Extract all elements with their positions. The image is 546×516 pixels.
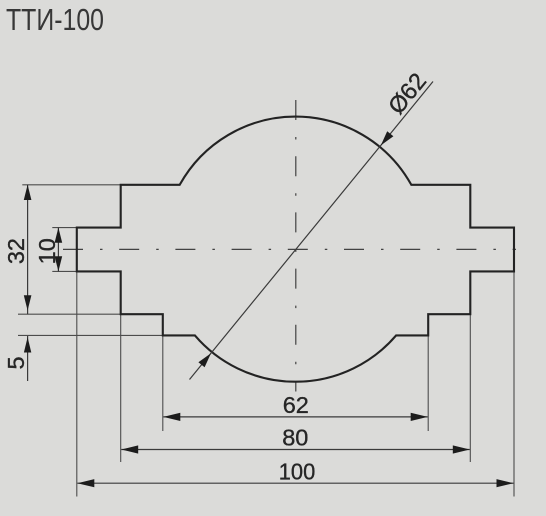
extension line 5 upper (y=314) [18,313,121,315]
extension line 100 right [513,271,515,496]
horizontal centerline [63,248,516,250]
extension line 10 upper [52,227,77,229]
diameter leader line [190,82,434,380]
dimension line 32 [27,185,29,314]
extension line 80 left [120,314,122,462]
svg-text:100: 100 [279,459,316,485]
extension line 62 right [427,335,429,431]
arrow 100 left [77,479,94,487]
dimension line 80 [121,449,470,451]
extension line 100 left [76,271,78,496]
part outline [77,117,514,382]
arrow 100 right [497,479,514,487]
arrow 62 left [163,413,180,421]
vertical centerline [295,100,297,392]
leader arrow lower (tip on circle) [198,353,211,367]
dimension line 5 [27,336,29,381]
extension line 62 left [162,335,164,431]
svg-text:32: 32 [3,238,29,264]
extension line 10 lower [52,270,77,272]
arrow 80 left [121,445,138,453]
dimension line 10 [57,228,59,272]
svg-text:10: 10 [34,238,60,264]
arrow 62 right [411,413,428,421]
leader arrow upper (tip on circle) [381,131,394,145]
extension line 5 lower (y=335) [18,334,163,336]
arrow 5 [24,337,31,352]
svg-text:5: 5 [3,356,29,369]
svg-text:ТТИ-100: ТТИ-100 [6,2,104,37]
arrow 32 bottom [24,295,32,310]
svg-text:62: 62 [283,392,309,418]
extension line 32 top (y=185) [22,184,120,186]
extension line 80 right [469,314,471,462]
arrow 10 top [55,228,63,243]
arrow 32 top [24,185,32,200]
arrow 10 bottom [55,256,63,271]
arrow 80 right [453,445,470,453]
svg-text:80: 80 [282,425,308,451]
dimension line 62 [163,416,427,418]
dimension line 100 [77,482,513,484]
